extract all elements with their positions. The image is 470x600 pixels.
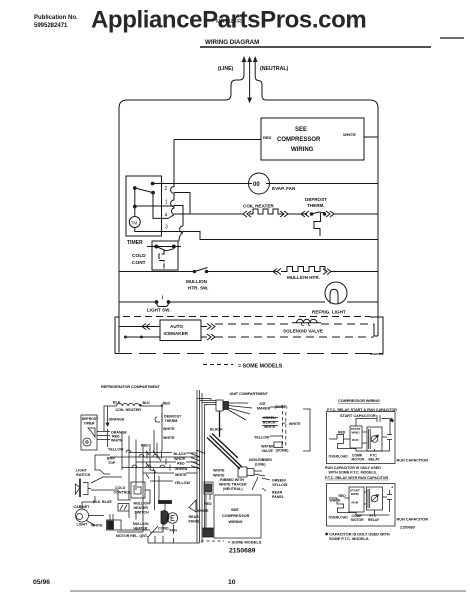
svg-text:BLK: BLK [143,401,151,405]
svg-text:WHITE TRACER: WHITE TRACER [219,483,247,487]
wire contact2 to coil heater row [174,193,190,215]
cold control box [152,241,178,270]
legend some models (bottom) [201,540,262,545]
svg-text:COIL HEATER: COIL HEATER [243,204,274,209]
footnote [325,532,390,542]
svg-text:RUN CAPACITOR: RUN CAPACITOR [397,459,429,463]
junction hatch marks [146,451,161,479]
title underline [200,46,431,48]
box2 compressor motor box [349,487,364,512]
wire color labels right stack [174,452,191,485]
svg-text:REFRIGERATOR COMPARTMENT: REFRIGERATOR COMPARTMENT [101,385,161,389]
label rear panel [189,500,196,512]
svg-text:ORANGE: ORANGE [109,418,125,422]
wire labels BLK BLK RED [113,401,170,406]
svg-text:(LINE): (LINE) [255,463,266,467]
svg-text:GREEN: GREEN [175,467,188,471]
footer [33,579,236,586]
svg-text:WHITE: WHITE [91,524,103,528]
svg-text:BLACK: BLACK [263,421,276,425]
lower connector plug [238,467,247,477]
svg-text:DEFROST: DEFROST [82,417,100,421]
timer internal contacts [133,182,155,209]
timer terminal numbers [165,186,169,231]
cold control pictorial [114,486,133,495]
mullion heater switch pictorial [118,504,129,512]
wire contact3 to row4 [183,232,378,240]
svg-text:5995282471: 5995282471 [34,23,68,29]
mesh vertical wires [122,430,157,518]
enclosure bottom dashed edge [115,353,383,355]
svg-text:RED: RED [263,135,272,140]
svg-text:RELAY: RELAY [368,518,380,522]
light switch [155,296,171,307]
svg-text:EVAP. FAN: EVAP. FAN [272,186,296,191]
svg-text:MULLION: MULLION [186,279,208,284]
svg-text:WHITE: WHITE [213,469,225,473]
svg-text:WIRING DIAGRAM: WIRING DIAGRAM [205,39,259,46]
resistor mullion heater [281,267,325,272]
svg-text:TOP: TOP [108,461,116,465]
wire color labels [210,416,301,440]
wire red down right side [161,406,163,450]
svg-text:DEFROST: DEFROST [164,415,182,419]
svg-text:RED: RED [177,462,185,466]
svg-text:(NEUTRAL): (NEUTRAL) [260,66,289,72]
compressor diagram box 2 [327,484,396,527]
publication number block [34,15,78,29]
wire light switch to lamp [169,301,326,303]
svg-text:WHITE: WHITE [289,422,301,426]
svg-text:CONT: CONT [132,260,146,266]
svg-text:GREEN/: GREEN/ [272,479,286,483]
svg-text:RUN CAPACITOR IS ONLY USED: RUN CAPACITOR IS ONLY USED [325,466,381,470]
svg-text:THERM.: THERM. [307,203,325,208]
svg-text:WATER: WATER [261,445,274,449]
wire contact3 down to cold control [179,233,183,241]
svg-text:RIBBED WITH: RIBBED WITH [220,478,244,482]
svg-text:1: 1 [165,200,168,206]
svg-text:HTR. SW.: HTR. SW. [188,286,208,291]
svg-text:SWITCH: SWITCH [76,473,91,477]
svg-text:YELLOW: YELLOW [272,483,288,487]
box2 ptc relay box [367,487,383,510]
svg-text:RED: RED [339,494,347,498]
svg-text:AUTO: AUTO [170,324,183,329]
svg-text:MOTOR REL. QNT.: MOTOR REL. QNT. [116,534,148,538]
wire neutral prong to box top [255,72,266,100]
svg-text:SEE: SEE [231,508,239,512]
connector arrows mullion left [273,269,281,275]
svg-text:HEATER: HEATER [134,506,149,510]
label ICE MAKER (SOME) [257,402,288,411]
mullion heater switch [193,268,209,274]
box1 run capacitor [382,435,392,452]
svg-text:REFRIG. LIGHT: REFRIG. LIGHT [312,310,346,315]
title WIRING DIAGRAM [205,39,259,46]
svg-text:RED: RED [204,502,212,506]
label MULLION HTR. SW. [186,279,208,291]
svg-text:WIND: WIND [351,492,360,496]
wire mullion row [119,271,194,273]
timer box [126,176,162,236]
svg-text:ICE: ICE [260,402,267,406]
svg-text:10: 10 [228,579,236,586]
svg-text:AppliancePartsPros.com: AppliancePartsPros.com [91,7,366,34]
svg-text:05/96: 05/96 [33,579,50,586]
svg-text:2150689: 2150689 [229,548,256,555]
svg-text:2: 2 [165,186,168,192]
svg-text:RED: RED [141,444,149,448]
dashed wire icemaker bottom row [215,336,374,338]
legend some models [203,364,283,370]
svg-text:MULLION HTR.: MULLION HTR. [287,275,320,280]
svg-text:CONTROL: CONTROL [114,491,133,495]
label SEE COMPRESSOR WIRING [263,127,356,153]
svg-text:VALVE: VALVE [262,449,274,453]
connector arrows defrost right [326,211,334,217]
svg-text:WHITE: WHITE [197,509,209,513]
box2 overload protector [334,498,356,513]
ice maker option bracket [303,409,310,451]
main schematic box outline [119,100,223,353]
svg-text:MULLION: MULLION [134,502,151,506]
svg-text:START CAPACITOR: START CAPACITOR [340,414,376,418]
svg-text:COMPRESSOR: COMPRESSOR [277,137,321,143]
power cord ground prong arrow [247,56,252,72]
small plug to compressor box [204,482,213,494]
svg-text:RUN CAPACITOR: RUN CAPACITOR [397,518,429,522]
svg-text:MOTOR: MOTOR [352,458,365,462]
svg-text:COIL HEATER: COIL HEATER [116,408,142,412]
light switch pictorial [76,469,91,478]
svg-text:COMPRESSOR: COMPRESSOR [222,514,250,518]
svg-text:Publication No.: Publication No. [34,15,78,21]
harness strands from refrigerator compartment [197,399,216,544]
wire ground prong down into box [247,72,252,104]
evap fan motor [249,173,270,194]
mullion heater connector [107,520,122,530]
svg-text:SEE: SEE [295,127,307,133]
svg-text:YELLOW: YELLOW [108,448,124,452]
svg-text:(LINE): (LINE) [218,66,234,72]
defrost thermostat switch [310,212,327,236]
svg-text:TIMER: TIMER [84,422,95,426]
wire light switch row [119,301,156,303]
wire coil heater row left [174,213,243,215]
enclosure right bracket [370,317,383,354]
labels WHITE WHITE [213,469,225,478]
main harness diagonals [207,411,242,469]
svg-text:REAR: REAR [189,515,200,519]
wire timer dot C to contact 4 [153,193,174,219]
refrigerator light lamp [325,282,347,304]
svg-text:BLACK: BLACK [210,428,223,432]
unit compartment connector plug [216,400,223,411]
svg-text:TM: TM [131,220,138,225]
wire defrost to right edge [334,213,378,215]
svg-text:COND.: COND. [158,527,170,531]
wire orange drop from coil heater [107,406,109,447]
defrost timer motor [83,438,91,446]
svg-text:(SOME): (SOME) [276,449,290,453]
svg-text:BLACK: BLACK [174,452,187,456]
wire line prong to box top [223,72,244,100]
dark connector block [203,528,213,537]
svg-text:WHITE: WHITE [213,474,225,478]
connector arrows coil heater right [280,211,288,217]
wire icemaker top row [119,326,160,328]
svg-text:WHITE: WHITE [163,436,175,440]
auto icemaker box [160,320,201,341]
connector arrows mullion right [323,269,331,275]
wire lamp to mesh [82,496,104,526]
wire stubs from timer box right [97,432,110,440]
svg-text:✱ CAPACITOR IS ONLY USED WITH: ✱ CAPACITOR IS ONLY USED WITH [325,532,390,537]
svg-text:OVERLOAD: OVERLOAD [329,455,349,459]
svg-text:LIGHT: LIGHT [77,523,89,527]
box2 run capacitor [383,490,393,512]
svg-text:WHITE: WHITE [175,473,187,477]
svg-text:WHITE: WHITE [343,132,356,137]
timer contact bump 3 [180,226,183,233]
svg-text:(NEUTRAL): (NEUTRAL) [223,487,243,491]
svg-text:YELLOW: YELLOW [254,436,270,440]
footer rule [70,590,466,592]
dashed wire to solenoid [215,323,292,325]
svg-text:GREEN: GREEN [263,416,276,420]
wire contact1 down to contact3 [174,206,183,227]
svg-text:THERM.: THERM. [165,419,179,423]
svg-text:RUN: RUN [352,438,359,442]
svg-text:ICEMAKER: ICEMAKER [164,331,189,336]
svg-text:COLD: COLD [115,486,126,490]
box1 wires [329,432,390,451]
enclosure top dashed edge [123,316,370,318]
right boundary verticals [197,390,202,403]
svg-text:P.T.C. RELAY WITH RUN CAPACITO: P.T.C. RELAY WITH RUN CAPACITOR [325,476,388,480]
connector arrows coil heater left [243,211,251,217]
svg-text:HEATER: HEATER [134,527,148,531]
model number text [216,19,245,25]
resistor coil heater [249,209,284,214]
solenoid valve coil [292,319,321,322]
wire to mullion heater [207,271,278,273]
box1 top loop with start capacitor [356,415,390,435]
svg-text:RED: RED [338,431,346,435]
svg-text:= SOME MODELS: = SOME MODELS [238,364,283,370]
misc connecting wires [117,450,200,543]
svg-text:BLK: BLK [113,401,121,405]
wire evap fan row [153,183,378,185]
wire from timer top to coil heater [104,406,117,432]
wire icemaker bottom row left [124,336,160,339]
svg-text:WIRING: WIRING [229,520,243,524]
box1 ptc relay box [367,427,382,451]
compressor diagram box 1 [327,412,396,464]
dashed wire solenoid to bracket [321,323,374,325]
svg-text:00: 00 [253,182,260,188]
hook joining icemaker rows right [374,324,378,336]
svg-text:REAR: REAR [272,491,283,495]
resistor coil heater (pictorial) [117,403,163,406]
svg-text:WHITE: WHITE [174,457,186,461]
svg-text:COMPRESSOR WIRING: COMPRESSOR WIRING [338,399,380,403]
svg-text:2150689: 2150689 [400,526,415,530]
enclosure left notch [115,317,119,354]
wire white from compressor box [364,136,378,138]
compressor callout box [261,118,364,160]
svg-text:OVERLOAD: OVERLOAD [329,516,349,520]
label WATER VALVE (SOME) [261,445,289,454]
svg-text:3: 3 [165,225,168,231]
svg-text:WITH SOME P.T.C. MODELS.: WITH SOME P.T.C. MODELS. [329,471,377,475]
svg-text:BLUE: BLUE [102,500,112,504]
defrost thermostat pictorial [155,413,162,422]
svg-text:RED: RED [163,402,171,406]
label DEFROST THERM. [305,197,327,208]
svg-text:WHITE: WHITE [163,427,175,431]
svg-text:4: 4 [165,213,168,219]
wire hop arcs [126,450,165,468]
dashed icemaker hookup [283,405,286,448]
wire timer dot D to contact 1 [135,205,174,207]
svg-text:NON-RIBBED: NON-RIBBED [249,458,272,462]
svg-text:DEFROST: DEFROST [305,197,327,202]
svg-text:MAKER: MAKER [257,407,271,411]
box1 overload protector [334,435,356,449]
svg-text:MULLION: MULLION [133,522,149,526]
label NON-RIBBED (LINE) [249,458,272,467]
connector arrows defrost left [301,211,309,217]
svg-text:WHITE: WHITE [111,439,123,443]
svg-text:UNIT COMPARTMENT: UNIT COMPARTMENT [230,392,269,396]
box2 wires [329,492,390,515]
svg-text:RELAY: RELAY [369,458,381,462]
see compressor wiring box [214,495,261,538]
box1 compressor motor box [350,426,362,448]
note lines between boxes [325,466,388,480]
power cord line prong arrow [242,56,247,72]
svg-text:MOTOR: MOTOR [351,518,364,522]
svg-text:WHITE: WHITE [330,499,342,503]
hatch marks on left verticals [191,450,205,469]
connector arrows icemaker right top [207,324,215,330]
svg-text:PANEL: PANEL [272,495,285,499]
wire red to compressor box [174,139,261,141]
defrost timer box [81,415,97,450]
svg-text:LIGHT SW.: LIGHT SW. [147,308,170,313]
svg-text:LIGHT: LIGHT [76,469,88,473]
condenser fan assembly [159,501,172,504]
svg-text:SWITCH: SWITCH [135,511,150,515]
connector arrows icemaker left [142,324,150,330]
label GREEN/YELLOW [272,479,288,488]
svg-text:= SOME MODELS: = SOME MODELS [228,540,262,545]
label REAR PANEL [272,491,285,500]
label COLD CONT [132,253,146,266]
svg-text:RUN: RUN [352,501,359,505]
svg-text:SOLENOID VALVE: SOLENOID VALVE [283,329,323,334]
wires fanning from connector [229,403,253,420]
wire lamp to right edge [347,301,378,303]
wires light switch to mesh [91,477,122,500]
box2 labels [329,494,380,522]
cold control contacts [147,245,181,269]
svg-text:COLD: COLD [132,253,146,259]
svg-text:TIMER: TIMER [127,240,143,246]
svg-text:SOME P.T.C. MODELS.: SOME P.T.C. MODELS. [329,537,369,541]
svg-text:BLK: BLK [93,500,101,504]
top right tick [440,37,464,39]
mesh horizontal bus lines [110,453,199,482]
power cord neutral prong arrow [253,56,258,72]
svg-text:WIRING: WIRING [291,147,314,153]
wire to defrost therm [288,213,307,215]
watermark AppliancePartsPros.com [91,7,366,34]
box1 labels [329,431,381,462]
label AUTO ICEMAKER [164,324,189,336]
main vertical bus with contact bumps [171,140,174,215]
svg-text:WIND: WIND [352,431,361,435]
svg-text:YELLOW: YELLOW [175,481,191,485]
wire mullion to right edge [331,271,378,273]
defrost timer cam [88,428,95,437]
connector arrows icemaker right bottom [207,334,215,340]
label RIBBED WITH WHITE TRACER (NEUTRAL) [219,478,247,491]
timer motor TM [129,207,183,232]
svg-text:+: + [391,485,394,490]
